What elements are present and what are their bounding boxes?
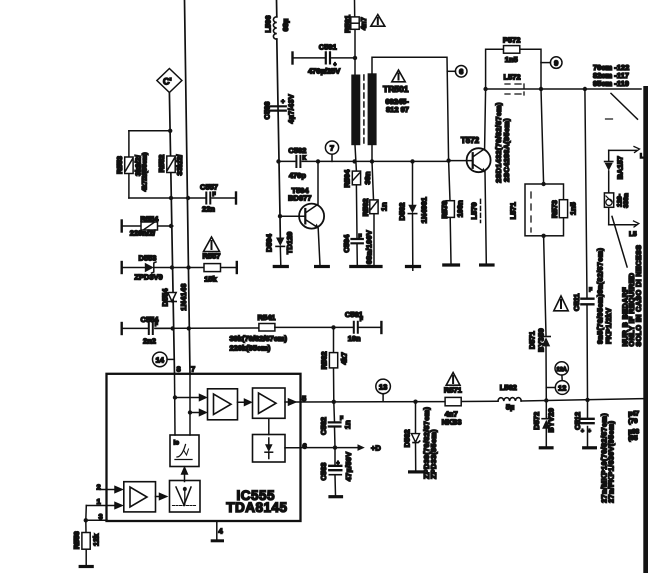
svg-text:R562: R562 — [320, 351, 329, 369]
svg-text:R552: R552 — [157, 155, 166, 173]
capacitor C511 — [572, 288, 593, 312]
svg-text:10n: 10n — [348, 334, 361, 343]
wire: node 12 column from rail to main bus — [541, 89, 546, 401]
svg-text:+: + — [281, 99, 285, 106]
resistor R562 — [320, 327, 349, 401]
capacitor C506 — [263, 94, 296, 124]
pin 2 input wire — [97, 482, 123, 492]
diode block inside IC — [253, 418, 301, 462]
inductor L571 with resistor R573 box — [508, 182, 577, 238]
svg-text:R556: R556 — [72, 531, 81, 549]
resistor R571 (4n7 MKS3) — [442, 386, 462, 427]
svg-text:R554: R554 — [140, 215, 159, 224]
transistor T572 — [446, 89, 511, 264]
wire: pin 7 line inside IC — [188, 374, 192, 435]
wire: left main bus (pin7 net) — [185, 0, 191, 374]
svg-text:39k(70/82/87cm): 39k(70/82/87cm) — [230, 334, 288, 343]
svg-text:9: 9 — [554, 58, 558, 67]
svg-text:220k(95cm): 220k(95cm) — [230, 344, 271, 353]
svg-text:1: 1 — [97, 497, 101, 506]
node C' diamond — [157, 69, 182, 93]
op-amp U1b (output amp) — [238, 388, 301, 418]
svg-text:22n: 22n — [202, 205, 215, 214]
warning triangle near R501 — [371, 15, 385, 27]
svg-text:95cm -119: 95cm -119 — [593, 79, 629, 88]
svg-text:F: F — [359, 234, 362, 240]
svg-text:D562: D562 — [403, 429, 412, 447]
svg-text:D502: D502 — [397, 203, 406, 221]
pin number 7 — [191, 365, 195, 374]
svg-text:C563: C563 — [319, 463, 328, 481]
wire: R501/TR primary column — [355, 0, 358, 265]
svg-text:C506: C506 — [263, 102, 272, 120]
svg-text:+: + — [337, 461, 340, 467]
svg-text:Ic: Ic — [174, 440, 180, 447]
svg-text:27n/FKP1/630V(95cm): 27n/FKP1/630V(95cm) — [607, 420, 616, 503]
svg-text:13: 13 — [379, 382, 387, 391]
svg-text:R573: R573 — [550, 200, 559, 218]
svg-text:L506: L506 — [264, 15, 273, 32]
svg-text:L562: L562 — [500, 383, 517, 392]
annotation leader line (BA157 note) — [612, 216, 627, 267]
svg-text:4µ7/43V: 4µ7/43V — [286, 94, 295, 124]
capacitor 120-330n (in BA157 branch) — [604, 193, 638, 238]
svg-text:2SC4288A(95cm): 2SC4288A(95cm) — [502, 118, 511, 182]
svg-text:R553: R553 — [115, 156, 124, 174]
svg-text:7: 7 — [191, 365, 195, 374]
capacitor C554 — [122, 315, 191, 346]
svg-text:µ47: µ47 — [628, 411, 639, 418]
wire: bottom rail of R553/R552 pair — [129, 196, 190, 200]
wire: top rail of R553/R552 pair — [129, 129, 173, 133]
svg-text:TD129: TD129 — [285, 232, 294, 255]
svg-text:+D: +D — [371, 443, 381, 452]
diode D572 (BYV29) — [532, 401, 555, 447]
value fragments at right edge — [628, 411, 639, 443]
svg-text:470µ/25V: 470µ/25V — [308, 67, 340, 76]
svg-text:C562: C562 — [319, 417, 328, 435]
svg-text:+: + — [588, 429, 591, 435]
svg-text:D571: D571 — [527, 331, 536, 349]
svg-text:R541: R541 — [258, 313, 276, 322]
svg-text:14: 14 — [156, 355, 165, 364]
node circle 9 — [541, 57, 562, 69]
warning triangle above R571 — [446, 373, 460, 386]
pin number 6 — [303, 442, 307, 451]
voltage table 70cm/82cm/95cm — [593, 63, 629, 88]
capacitor C561 — [345, 310, 382, 343]
wire: main output bus y=401 — [301, 398, 644, 404]
diode BA157 branch with connector stubs — [605, 147, 644, 225]
node circle 14 — [153, 352, 174, 367]
value note 9n5/FKP1 (rotated) — [596, 247, 613, 344]
ferrite bead L572 — [504, 72, 525, 95]
svg-text:6: 6 — [459, 67, 463, 76]
node circle 7 — [325, 141, 338, 161]
resistor R504 — [343, 169, 373, 188]
svg-text:100n: 100n — [456, 200, 465, 218]
svg-text:1n5: 1n5 — [505, 55, 518, 64]
inductor L562 — [498, 383, 521, 411]
svg-text:3: 3 — [99, 512, 103, 521]
svg-text:R504: R504 — [343, 169, 352, 188]
resistor R553 — [115, 131, 148, 198]
svg-text:+: + — [581, 429, 584, 435]
svg-text:ZPD3V9: ZPD3V9 — [134, 273, 162, 282]
svg-text:C502: C502 — [288, 146, 306, 155]
resistor R570 — [440, 161, 465, 264]
svg-text:R501: R501 — [343, 15, 352, 33]
warning triangle above R557 — [204, 237, 220, 252]
sawtooth generator block inside IC — [170, 468, 201, 513]
svg-text:812 97: 812 97 — [386, 105, 409, 114]
pin number 8 — [177, 365, 181, 374]
capacitor C502 — [276, 146, 320, 180]
svg-text:F: F — [213, 192, 216, 198]
terminal bar C512 — [584, 446, 596, 449]
pin 1 input wire — [86, 497, 122, 509]
svg-text:(95: (95 — [628, 435, 638, 442]
transformer TR501 — [351, 57, 448, 161]
svg-text:NKS3: NKS3 — [442, 418, 462, 427]
node circle 13 — [376, 379, 391, 401]
resistor R502 — [361, 161, 389, 265]
svg-text:D554: D554 — [161, 288, 170, 307]
svg-text:15k: 15k — [204, 275, 217, 284]
svg-text:F: F — [360, 317, 363, 323]
svg-text:BY359: BY359 — [536, 328, 545, 352]
svg-text:C557: C557 — [200, 183, 218, 192]
resistor R541 — [258, 313, 353, 331]
svg-text:TDA8145: TDA8145 — [226, 500, 287, 515]
ground bar C504 — [351, 265, 365, 268]
svg-text:39n: 39n — [363, 171, 372, 184]
wire: pin 6 net with +D arrow — [301, 443, 382, 452]
ground bar R570 — [444, 263, 459, 266]
warning triangle near C511 — [554, 296, 568, 311]
svg-text:SOLO IN CASO DI NECESS: SOLO IN CASO DI NECESS — [634, 245, 643, 347]
resistor R554 — [122, 215, 174, 238]
annotation leader line (top right) — [606, 93, 638, 119]
svg-text:12A: 12A — [557, 367, 567, 373]
inductor L506 — [264, 15, 290, 39]
svg-text:33k/2/: 33k/2/ — [175, 154, 184, 176]
node circle 6 — [447, 66, 467, 78]
diode D554 (1N4148) — [161, 283, 189, 311]
wire: drive net y=161 — [318, 159, 449, 163]
svg-text:1n: 1n — [380, 202, 389, 211]
svg-text:4k7: 4k7 — [340, 352, 349, 365]
scan page edge bar (right) — [643, 86, 648, 573]
diode D553 (zener ZPD3V9) — [122, 254, 191, 282]
diode D504 (TD129) — [264, 232, 294, 266]
svg-text:R502: R502 — [361, 198, 370, 216]
svg-text:C504: C504 — [342, 234, 351, 253]
svg-text:1N4148: 1N4148 — [179, 283, 188, 311]
svg-text:D504: D504 — [264, 233, 273, 252]
diode D502 (1N4001) — [397, 161, 428, 270]
svg-text:L571: L571 — [508, 202, 517, 219]
svg-text:L5: L5 — [629, 231, 637, 238]
wire: feedback wire y=328 to R561 — [155, 327, 259, 329]
resistor R501 — [343, 15, 368, 33]
pin 4 ground stub — [212, 521, 223, 541]
capacitor C562 — [319, 402, 352, 448]
svg-text:1n: 1n — [343, 420, 352, 429]
svg-text:R571: R571 — [444, 386, 462, 395]
svg-text:6: 6 — [303, 442, 307, 451]
svg-text:C511: C511 — [572, 294, 581, 312]
resistor R552 — [157, 154, 184, 176]
ferrite bead L570 — [469, 199, 480, 222]
op-amp U1c (input amp) — [124, 482, 167, 512]
diode D562 (zener) — [403, 402, 438, 479]
svg-text:4k7/2/(95cm): 4k7/2/(95cm) — [141, 152, 148, 191]
terminal bar D562 — [410, 470, 422, 473]
capacitor C504 — [342, 230, 374, 264]
resistor P572 — [486, 36, 541, 89]
svg-text:4: 4 — [219, 527, 224, 536]
svg-text:BYV29: BYV29 — [547, 408, 556, 433]
ground bar R502 — [367, 265, 381, 268]
svg-text:BA157: BA157 — [616, 156, 625, 179]
value note 27n/MKP10 (rotated) — [599, 413, 615, 503]
warning triangle TR501 — [392, 70, 405, 82]
svg-text:1n5: 1n5 — [568, 202, 577, 215]
svg-text:L570: L570 — [469, 202, 478, 219]
ground bar T504 emitter — [316, 265, 329, 268]
note NUR B BEDARF (rotated) — [620, 245, 643, 347]
svg-text:68µ: 68µ — [281, 19, 290, 32]
svg-text:T572: T572 — [461, 136, 480, 145]
wire: +B rail y=89 — [483, 87, 641, 91]
wire: middle column (C506/T504 base net) — [277, 0, 281, 237]
svg-text:+: + — [334, 62, 337, 68]
svg-text:D572: D572 — [532, 412, 541, 430]
capacitor C501 — [293, 43, 358, 76]
pin 3 wire — [84, 506, 107, 523]
svg-text:330n: 330n — [623, 193, 630, 208]
capacitor C563 (electrolytic) — [319, 448, 353, 496]
resistor R557 — [189, 252, 237, 284]
diode D571 (BY359) — [527, 328, 550, 352]
svg-text:BD977: BD977 — [288, 194, 311, 203]
svg-text:1N4001: 1N4001 — [419, 197, 428, 223]
svg-text:TR501: TR501 — [383, 84, 409, 94]
svg-text:8: 8 — [177, 365, 181, 374]
terminal bar C563 — [330, 495, 342, 498]
svg-text:2n2: 2n2 — [143, 337, 156, 346]
pin number 5 — [302, 394, 306, 403]
node circles 12A and 12 — [546, 362, 569, 395]
svg-text:5: 5 — [302, 394, 306, 403]
resistor R556 — [72, 520, 101, 565]
svg-text:K: K — [303, 156, 307, 162]
svg-text:C512: C512 — [573, 412, 582, 430]
svg-text:2: 2 — [97, 482, 101, 491]
svg-text:(70: (70 — [628, 418, 638, 425]
svg-text:4n7: 4n7 — [359, 17, 368, 30]
svg-text:P572: P572 — [503, 36, 521, 45]
svg-text:470p: 470p — [289, 171, 307, 180]
svg-text:220n/2/: 220n/2/ — [130, 229, 156, 238]
svg-text:R570: R570 — [440, 201, 449, 219]
ground bar T572 emitter — [481, 263, 493, 266]
svg-text:R557: R557 — [203, 252, 221, 261]
svg-text:68n/100V: 68n/100V — [365, 230, 374, 264]
svg-text:F: F — [340, 416, 343, 422]
wire: diamond line down to IC pin 8 — [169, 93, 174, 375]
terminal bar D572 — [540, 446, 552, 449]
transistor T504 BD977 — [278, 161, 324, 265]
svg-text:12k: 12k — [92, 533, 101, 546]
wire: C511/C512 column — [585, 89, 590, 446]
op-amp IC555 TDA8145 box — [107, 374, 301, 521]
svg-text:F: F — [155, 322, 158, 328]
ground bar D502 — [407, 265, 420, 268]
svg-text:F: F — [589, 288, 592, 294]
svg-text:D553: D553 — [139, 254, 157, 263]
Ic current-source block inside IC — [170, 435, 199, 467]
capacitor C512 — [573, 412, 593, 435]
svg-text:5µ: 5µ — [506, 402, 515, 411]
svg-text:ZPD33(95cm): ZPD33(95cm) — [429, 429, 438, 479]
svg-text:C501: C501 — [319, 43, 337, 52]
svg-text:L572: L572 — [504, 72, 521, 81]
svg-text:FKP1/2kV: FKP1/2kV — [604, 308, 613, 344]
op-amp U1a (top amp) — [175, 389, 238, 420]
svg-text:C': C' — [163, 77, 172, 87]
capacitor C557 — [189, 183, 237, 214]
value label 39k/220k for R561 — [230, 334, 288, 353]
wire: pin 8 line inside IC — [173, 374, 177, 435]
ground bar D504 — [274, 265, 287, 268]
ground bar R556 — [80, 565, 92, 568]
svg-text:7: 7 — [330, 144, 334, 153]
svg-text:47µ/50V: 47µ/50V — [344, 452, 353, 482]
svg-text:12: 12 — [558, 383, 566, 392]
